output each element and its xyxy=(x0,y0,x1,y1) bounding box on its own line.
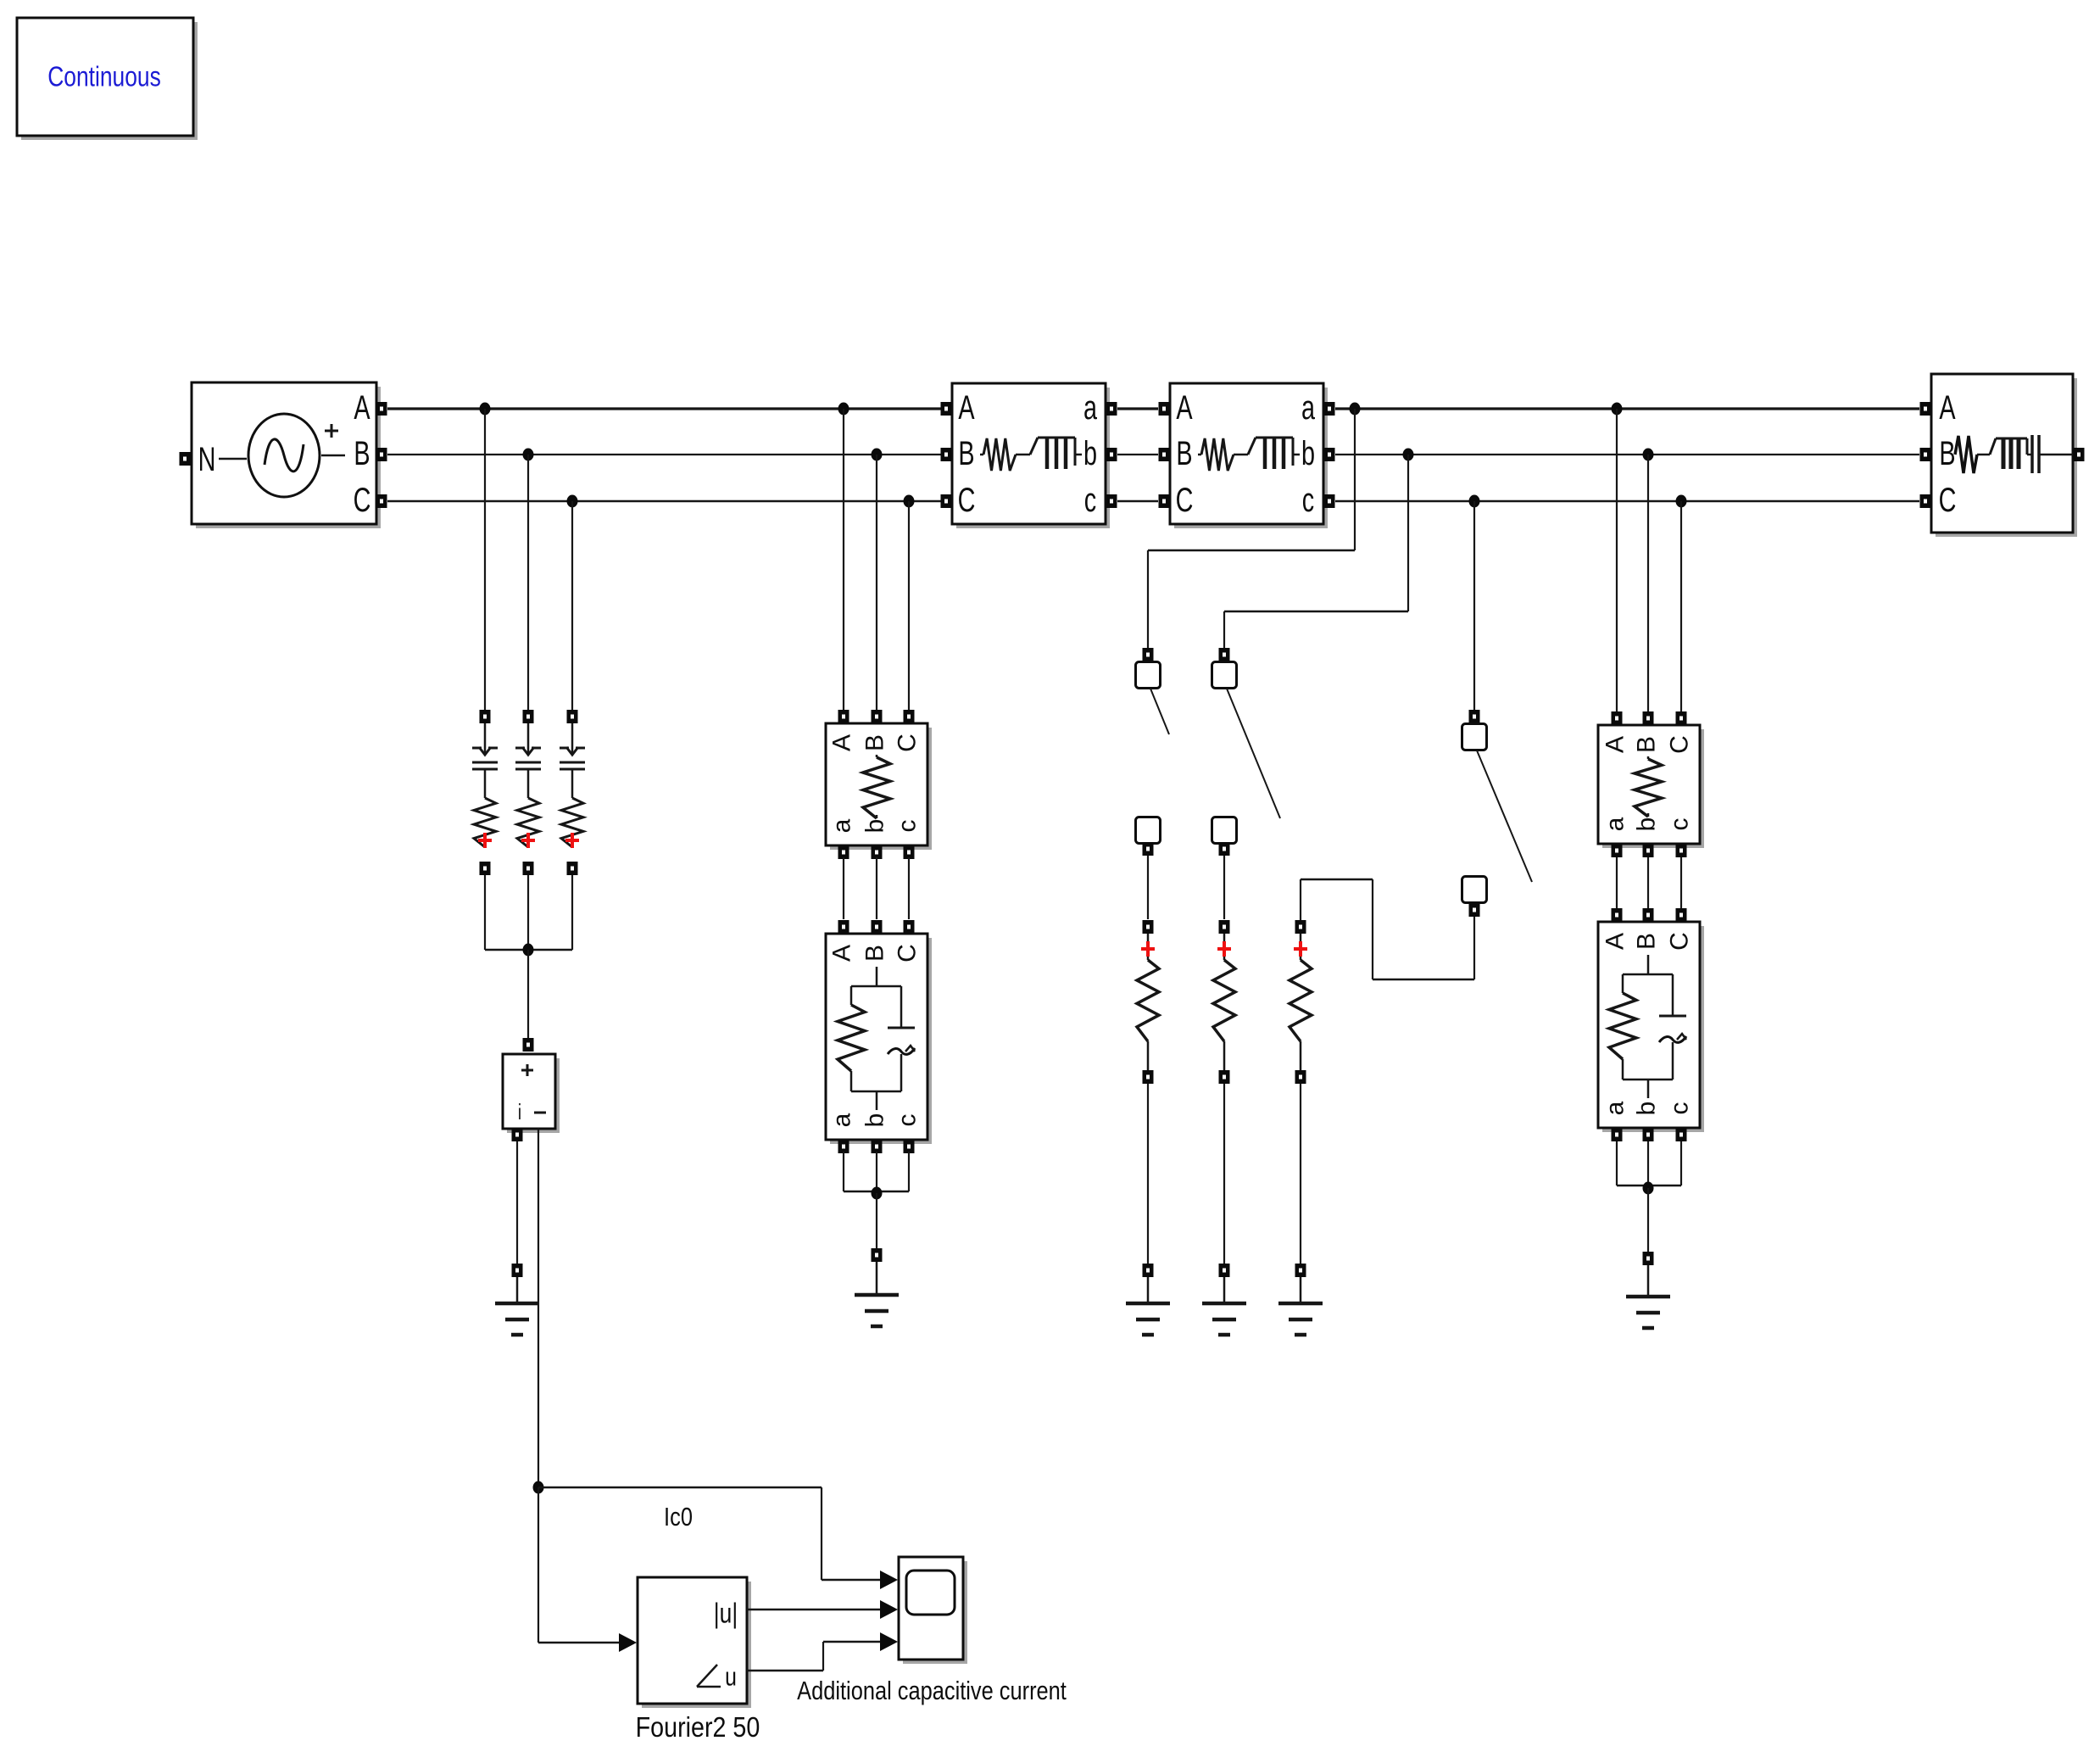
svg-text:a: a xyxy=(1301,389,1316,427)
breaker 2 lower contact xyxy=(1212,817,1237,856)
svg-text:b: b xyxy=(861,819,889,834)
wires right RC to neutral xyxy=(1617,1141,1681,1186)
svg-text:B: B xyxy=(861,734,889,751)
ground (middle column) xyxy=(855,1262,899,1326)
wire breaker 2 to fault resistor 2 xyxy=(1223,856,1225,919)
wire phase A (source to RL1) xyxy=(387,407,941,410)
svg-text:b: b xyxy=(1083,435,1097,473)
wire a (RL1 to RL2) xyxy=(1117,407,1158,410)
svg-text:u: u xyxy=(725,1662,737,1691)
wire middle neutral to ground xyxy=(876,1193,877,1248)
wire angle-u to scope input 3 xyxy=(747,1632,898,1671)
svg-text:a: a xyxy=(828,818,856,833)
svg-text:Continuous: Continuous xyxy=(47,62,161,92)
three-phase series RL branch 1 xyxy=(941,383,1117,528)
three-phase programmable voltage source xyxy=(180,382,387,528)
svg-text:B: B xyxy=(861,945,889,962)
svg-text:Fourier2 50: Fourier2 50 xyxy=(636,1711,760,1743)
port (ground connector) xyxy=(512,1264,523,1277)
capacitor-resistor branch b (series RC with measurement) xyxy=(515,710,541,875)
node right neutral xyxy=(1643,1182,1654,1195)
three-phase parallel RC block (right) xyxy=(1598,908,1704,1141)
fault resistor 2 xyxy=(1213,920,1235,1084)
node B2 (drop to measurement column) xyxy=(872,449,883,461)
port middle ground xyxy=(872,1248,883,1262)
wire Ic0 to Fourier input xyxy=(538,1487,637,1652)
node c4 (drop to right load column) xyxy=(1676,495,1687,508)
svg-text:a: a xyxy=(1601,1101,1629,1115)
svg-text:N: N xyxy=(198,441,216,479)
breaker 4 contact xyxy=(1462,877,1487,918)
ground (fault resistor 3) xyxy=(1278,1277,1323,1335)
wire fault resistor 1 to ground xyxy=(1147,1084,1149,1264)
wire c to breaker 3 xyxy=(1473,501,1475,711)
breaker 3 (upper contact and blade) xyxy=(1462,710,1533,882)
svg-text:C: C xyxy=(894,944,922,962)
ground (right column) xyxy=(1626,1265,1670,1328)
wire a to breaker 1 xyxy=(1148,409,1355,649)
label Additional capacitive current xyxy=(797,1677,1067,1706)
node A1 (drop to capacitive branch Ca) xyxy=(480,403,491,416)
wire b to breaker 2 xyxy=(1224,455,1408,649)
svg-text:c: c xyxy=(1666,1102,1694,1115)
svg-text:A: A xyxy=(828,734,856,751)
three-phase series R block (middle) xyxy=(826,710,932,859)
wire drop phase b to capacitor branch xyxy=(527,455,529,710)
svg-text:A: A xyxy=(1601,933,1629,950)
node B1 (drop to capacitive branch Cb) xyxy=(523,449,534,461)
ground (fault resistor 1) xyxy=(1126,1277,1170,1335)
capacitor-resistor branch c (series RC with measurement) xyxy=(560,710,585,875)
wire b (RL1 to RL2) xyxy=(1117,454,1158,455)
svg-text:c: c xyxy=(894,820,922,833)
wire Cc to neutral node xyxy=(528,875,572,950)
wire phase B (source to RL1) xyxy=(387,454,941,455)
svg-text:a: a xyxy=(1601,817,1629,831)
port right ground xyxy=(1643,1252,1654,1265)
wire Cb to neutral node xyxy=(527,875,529,950)
port ground 2 xyxy=(1219,1264,1230,1277)
svg-text:b: b xyxy=(1301,435,1315,473)
svg-text:C: C xyxy=(1939,482,1957,520)
svg-text:b: b xyxy=(861,1113,889,1128)
node a3 (drop to breaker 1) xyxy=(1350,403,1361,416)
wires middle RC to neutral xyxy=(844,1152,909,1191)
ground (fault resistor 2) xyxy=(1202,1277,1246,1335)
svg-text:i: i xyxy=(518,1099,521,1124)
breaker 1 (upper contact and blade) xyxy=(1136,648,1170,734)
node middle neutral xyxy=(872,1187,883,1200)
svg-text:b: b xyxy=(1633,817,1661,832)
port ground 1 xyxy=(1143,1264,1154,1277)
wire measurement to ground xyxy=(516,1141,518,1264)
wire signal Ic0 (measurement output) xyxy=(538,1129,539,1487)
wire drop A to middle column xyxy=(843,409,844,711)
svg-text:C: C xyxy=(354,482,371,520)
svg-text:B: B xyxy=(958,435,974,473)
wire a (RL2 to load) xyxy=(1335,407,1919,410)
svg-text:A: A xyxy=(828,945,856,962)
svg-text:a: a xyxy=(828,1113,856,1127)
node C1 (drop to capacitive branch Cc) xyxy=(567,495,578,508)
three-phase series RL branch 2 xyxy=(1159,383,1335,528)
wire fault resistor 2 to ground xyxy=(1223,1084,1225,1264)
fault resistor 3 xyxy=(1290,920,1312,1084)
svg-text:B: B xyxy=(1176,435,1192,473)
wire drop C to middle column xyxy=(908,501,910,711)
wire drop b to right column xyxy=(1647,455,1649,711)
wire b (RL2 to load) xyxy=(1335,454,1919,455)
node A2 (drop to measurement column) xyxy=(838,403,849,416)
svg-text:c: c xyxy=(1302,482,1314,520)
capacitor-resistor branch a (series RC with measurement) xyxy=(472,710,498,875)
svg-text:A: A xyxy=(1601,736,1629,753)
svg-text:C: C xyxy=(1666,735,1694,754)
svg-text:C: C xyxy=(958,482,976,520)
label Ic0 xyxy=(664,1503,693,1532)
Fourier2 50 block xyxy=(638,1577,751,1708)
svg-text:B: B xyxy=(1633,736,1661,753)
wire drop a to right column xyxy=(1616,409,1618,711)
wire Ic0 to scope input 1 xyxy=(538,1487,898,1589)
scope block (Additional capacitive current) xyxy=(899,1557,967,1664)
wire fault resistor 3 to ground xyxy=(1300,1084,1301,1264)
label Fourier2 50 xyxy=(636,1711,760,1743)
wire |u| to scope input 2 xyxy=(747,1600,898,1619)
node c3 (drop to breaker 3) xyxy=(1469,495,1480,508)
node neutral join xyxy=(523,944,534,957)
wire breaker 1 to fault resistor 1 xyxy=(1147,856,1149,919)
svg-text:C: C xyxy=(1666,932,1694,951)
three-phase parallel RC block (middle) xyxy=(826,920,932,1153)
svg-text:|u|: |u| xyxy=(714,1598,738,1629)
svg-text:c: c xyxy=(1084,482,1096,520)
wire drop B to middle column xyxy=(876,455,877,711)
breaker 2 (upper contact and blade) xyxy=(1212,648,1281,818)
breaker 1 lower contact xyxy=(1136,817,1161,856)
svg-text:C: C xyxy=(1176,482,1194,520)
wire right neutral to ground xyxy=(1647,1188,1649,1252)
svg-text:B: B xyxy=(1939,435,1955,473)
svg-text:Ic0: Ic0 xyxy=(664,1503,693,1532)
wire phase C (source to RL1) xyxy=(387,500,941,503)
svg-text:A: A xyxy=(958,389,975,427)
node b4 (drop to right load column) xyxy=(1643,449,1654,461)
wires middle R to RC block xyxy=(844,857,909,919)
svg-text:c: c xyxy=(1666,818,1694,831)
fault resistor 1 xyxy=(1137,920,1159,1084)
ground (below current measurement) xyxy=(495,1277,539,1335)
wire c (RL2 to load) xyxy=(1335,500,1919,503)
wire neutral to current measurement xyxy=(527,950,529,1039)
node C2 (drop to measurement column) xyxy=(904,495,915,508)
powergui block (Continuous) xyxy=(17,18,198,140)
wire drop c to right column xyxy=(1680,501,1682,711)
wire drop phase a to capacitor branch xyxy=(484,409,486,710)
svg-text:B: B xyxy=(1633,933,1661,950)
svg-text:A: A xyxy=(354,389,370,427)
wire drop phase c to capacitor branch xyxy=(571,501,573,710)
svg-text:b: b xyxy=(1633,1102,1661,1116)
svg-text:Additional capacitive current: Additional capacitive current xyxy=(797,1677,1067,1706)
wire Ca to neutral node xyxy=(485,875,528,950)
svg-text:A: A xyxy=(1176,389,1193,427)
current measurement block Ic0 xyxy=(503,1038,560,1141)
port ground 3 xyxy=(1295,1264,1306,1277)
svg-text:C: C xyxy=(894,734,922,752)
node a4 (drop to right load column) xyxy=(1612,403,1623,416)
wires right R to RC block xyxy=(1617,857,1681,908)
svg-text:B: B xyxy=(354,435,370,473)
wire breaker 4 to fault resistor 3 xyxy=(1301,879,1474,979)
node b3 (drop to breaker 2) xyxy=(1403,449,1414,461)
svg-text:A: A xyxy=(1939,389,1956,427)
node signal Ic0 branch xyxy=(533,1481,544,1494)
svg-text:c: c xyxy=(894,1114,922,1127)
svg-text:a: a xyxy=(1083,389,1098,427)
three-phase series RLC load block xyxy=(1920,374,2085,537)
three-phase series R block (right) xyxy=(1598,711,1704,857)
wire c (RL1 to RL2) xyxy=(1117,500,1158,503)
